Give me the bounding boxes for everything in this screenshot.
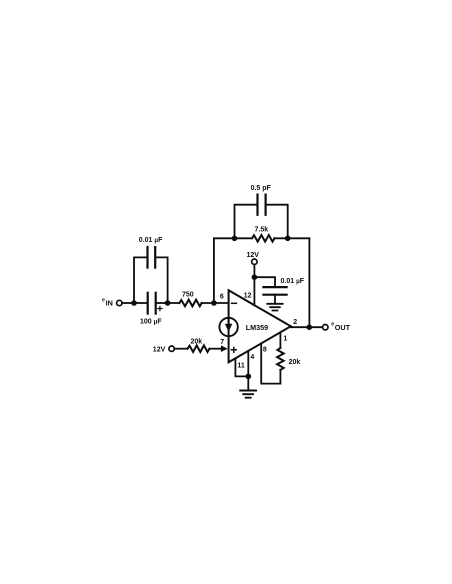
svg-text:0.01 µF: 0.01 µF [281, 278, 305, 285]
wire R2 to feedback right riser [275, 238, 310, 327]
wire 0.5pF loop left [235, 205, 258, 239]
minus input symbol [232, 302, 237, 304]
resistor R1 750 [179, 300, 201, 307]
current source symbol [219, 318, 237, 336]
svg-text:LM359: LM359 [246, 323, 268, 332]
wire pin 1 to R4 [279, 332, 281, 348]
node C [211, 300, 217, 306]
supply terminal 12V (top) [252, 259, 257, 264]
svg-text:e: e [102, 298, 105, 304]
input terminal eIN [117, 300, 122, 305]
ground (main) [240, 391, 256, 398]
svg-text:7.5k: 7.5k [255, 227, 269, 234]
svg-text:20k: 20k [191, 339, 203, 346]
svg-text:1: 1 [283, 335, 287, 342]
wire 12V to R3 [174, 348, 187, 350]
polarity + of 100uF [158, 306, 162, 310]
wire C2 right plate to node B [156, 302, 168, 304]
wire cap to ground [274, 295, 276, 304]
node OUT [307, 324, 313, 330]
node D [252, 274, 258, 280]
svg-text:8: 8 [263, 346, 267, 353]
wire 0.5pF loop right [266, 205, 288, 239]
svg-text:IN: IN [106, 299, 113, 308]
capacitor C1 0.01uF plates [146, 247, 148, 268]
wire output pin 2 [291, 326, 323, 328]
svg-text:4: 4 [250, 354, 254, 361]
wire R1 to node C and op-amp minus input [202, 302, 229, 304]
output terminal eOUT [323, 325, 328, 330]
arrow into pin 7 [221, 345, 228, 352]
node F2 [285, 236, 291, 242]
wire pin 4 [247, 351, 249, 389]
svg-text:100 µF: 100 µF [140, 318, 162, 325]
wire top branch right riser [155, 257, 167, 303]
node E [246, 374, 252, 380]
svg-text:12: 12 [244, 292, 252, 299]
resistor R4 20k [277, 348, 284, 370]
wire pin 12 [253, 264, 255, 305]
svg-text:12V: 12V [153, 347, 166, 354]
svg-text:6: 6 [220, 294, 224, 301]
current source arrow [225, 324, 232, 332]
svg-text:e: e [331, 322, 334, 328]
wire feedback left riser [214, 238, 252, 303]
node B [165, 300, 171, 306]
resistor R2 7.5k [252, 235, 275, 242]
svg-text:0.01 µF: 0.01 µF [139, 237, 163, 244]
node A [131, 300, 137, 306]
wire R4 bottom to pin 8 wire [279, 370, 281, 384]
wire node D to bypass cap [254, 277, 275, 287]
plus input symbol [231, 347, 236, 352]
wire input to node A [122, 302, 134, 304]
wire node A to C2 left plate [134, 302, 148, 304]
wire pin 8 [261, 344, 280, 384]
svg-text:0.5 pF: 0.5 pF [251, 185, 272, 192]
svg-text:20k: 20k [289, 359, 301, 366]
op-amp U1 LM359 triangle [229, 290, 291, 362]
capacitor C3 0.5pF plates [256, 195, 258, 215]
wire node B to R1 [168, 302, 180, 304]
svg-text:750: 750 [182, 291, 194, 298]
svg-text:2: 2 [293, 319, 297, 326]
capacitor C4 0.01uF plates [263, 286, 286, 288]
svg-text:11: 11 [237, 362, 245, 369]
svg-text:7: 7 [220, 339, 224, 346]
capacitor C2 100uF plates [147, 293, 149, 314]
wire R3 to pin 7 arrow [209, 348, 223, 350]
wire top branch left riser [134, 257, 147, 303]
resistor R3 20k [188, 345, 210, 352]
svg-text:OUT: OUT [335, 323, 351, 332]
wire pin 11 [235, 358, 248, 376]
svg-text:12V: 12V [247, 252, 260, 259]
ground (bypass) [267, 304, 282, 311]
supply terminal 12V (pin 7) [169, 346, 174, 351]
node F1 [232, 236, 238, 242]
